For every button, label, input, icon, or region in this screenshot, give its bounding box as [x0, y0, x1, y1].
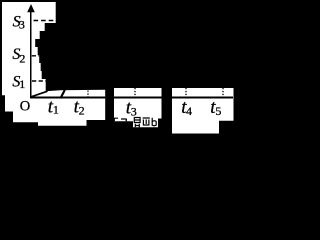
svg-text:1: 1	[53, 103, 59, 117]
svg-text:2: 2	[19, 52, 25, 66]
dotted vertical above t4	[185, 88, 187, 97]
fragment gamma shape	[114, 118, 118, 122]
dotted vertical above t2	[87, 91, 89, 97]
graph line: steep slash near t1	[60, 90, 64, 98]
fragment six-blob	[152, 118, 156, 126]
svg-text:1: 1	[19, 77, 25, 91]
middle white patch	[114, 88, 162, 127]
svg-text:3: 3	[19, 17, 25, 31]
dashed line at S2 level	[32, 55, 39, 57]
text fragments at bottom of middle patch	[114, 118, 156, 128]
fragment er-shape	[143, 118, 150, 126]
svg-text:3: 3	[131, 104, 137, 118]
right white patch	[172, 88, 234, 134]
dashed line at S1 level	[32, 80, 46, 82]
svg-text:4: 4	[186, 104, 192, 118]
fragment sun-box shape	[134, 118, 140, 128]
svg-text:O: O	[20, 99, 30, 115]
x-axis	[30, 97, 233, 99]
svg-text:2: 2	[79, 104, 85, 118]
dashed line at S3 level	[34, 20, 56, 22]
fragment hook shape	[121, 119, 126, 121]
dotted vertical above t3	[134, 88, 136, 97]
y-axis	[30, 8, 32, 98]
graph line: shallow rise from origin	[31, 91, 48, 97]
dotted vertical above t5	[222, 88, 224, 97]
left white patch (staircase)	[2, 2, 105, 126]
y-axis arrowhead	[27, 4, 35, 12]
svg-text:5: 5	[215, 104, 221, 118]
